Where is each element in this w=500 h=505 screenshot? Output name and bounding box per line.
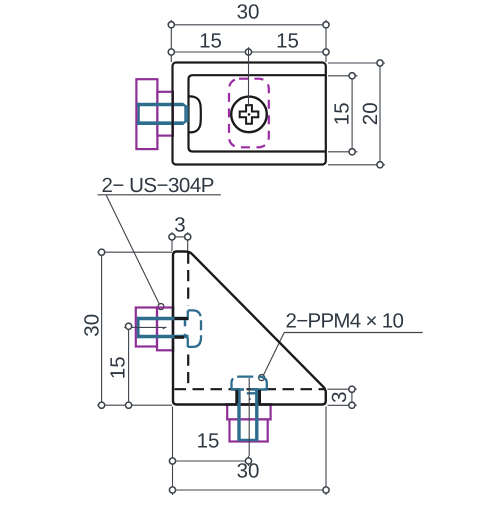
bottom screw shaft (blue) [238, 389, 258, 441]
leader line PPM4x10 [259, 333, 285, 381]
left screw center line [124, 327, 166, 329]
dim 15 left vertical [126, 323, 132, 408]
svg-text:20: 20 [359, 102, 382, 125]
label underline PPM4x10 [284, 332, 423, 334]
inner pocket outline (top view) [189, 75, 327, 151]
dashed clamp zone rounded rect (magenta) [229, 79, 269, 148]
bottom screw hole edges in wall (black) [237, 390, 260, 404]
dim 15 right vertical [349, 73, 355, 155]
dim 15 left text [199, 30, 222, 53]
label 2-PPM4x10 [286, 309, 404, 332]
svg-text:2−PPM4 × 10: 2−PPM4 × 10 [286, 309, 404, 332]
svg-text:30: 30 [237, 460, 260, 483]
bracket edge restroke over left knob [172, 306, 174, 352]
dim 3 top (side view) extension lines [172, 232, 188, 251]
dim 20 right vertical [377, 60, 383, 168]
svg-text:15: 15 [276, 30, 299, 53]
dim 15/15 top: dimension line [168, 49, 329, 55]
dim 3 right extension lines [328, 389, 357, 405]
bracket triangle outline (side view) [173, 252, 326, 405]
dim 30 top: dimension line [168, 22, 329, 28]
svg-text:30: 30 [81, 314, 104, 337]
boss bump on inner left wall (top view) [189, 96, 201, 132]
dim 15 right text (rotated) [331, 102, 354, 125]
bracket edge restroke over bottom knob [226, 403, 273, 405]
label underline US-304P [98, 194, 221, 196]
dim 15 bottom text [197, 430, 220, 453]
svg-text:3: 3 [328, 391, 351, 402]
svg-text:15: 15 [107, 356, 130, 379]
dim 15 left text (rotated) [107, 356, 130, 379]
phillips cross recess [240, 105, 259, 124]
thumb screw shaft (top view, blue) [137, 103, 188, 125]
bottom screw knob lower (purple) [230, 419, 268, 441]
dim 20 right text (rotated) [359, 102, 382, 125]
left thumb screw wing (side view, purple) [136, 308, 157, 347]
dim 3 right text (rotated) [328, 391, 351, 402]
right side extension lines (top view) [328, 63, 385, 165]
thumb screw hub (top view, purple) [157, 92, 173, 136]
bottom screw head dome (blue) [231, 377, 267, 394]
left thumb screw hub (side view, purple) [157, 308, 173, 351]
dim 30 top: text [237, 1, 260, 24]
svg-text:2− US−304P: 2− US−304P [102, 174, 214, 197]
left screw shaft (side view, blue) [137, 317, 189, 338]
outer body outline (top view) [173, 63, 326, 165]
dim 30 left vertical [99, 249, 105, 408]
dim 30 bottom dimension line [169, 487, 329, 493]
dim 15 bottom dimension line [169, 458, 251, 464]
dim 30 left text (rotated) [81, 314, 104, 337]
center extension to screw [248, 47, 250, 106]
leader line US-304P [106, 195, 164, 310]
bottom extension lines (side view) [173, 407, 327, 496]
svg-text:3: 3 [174, 214, 185, 237]
bottom screw knob upper (purple) [227, 405, 270, 420]
dim 15 right text [276, 30, 299, 53]
svg-text:15: 15 [199, 30, 222, 53]
svg-text:15: 15 [331, 102, 354, 125]
left screw head (side view, blue) [188, 310, 201, 347]
svg-text:30: 30 [237, 1, 260, 24]
dim 30 bottom text [237, 460, 260, 483]
left screw hole edges in wall (black) [175, 319, 189, 338]
screw head circle (top view) [231, 97, 267, 133]
bottom screw center line [249, 378, 251, 456]
hidden edge vertical dashed [187, 253, 189, 389]
hidden edge horizontal dashed [175, 388, 326, 390]
dim 3 top text [174, 214, 185, 237]
left extension lines (side view) [97, 252, 172, 405]
label 2- US-304P [102, 174, 214, 197]
thumb screw flange (top view, purple) [136, 79, 157, 149]
svg-text:15: 15 [197, 430, 220, 453]
body left edge restroke over neck (top view) [172, 91, 174, 138]
dim 30 top: extension lines [171, 20, 326, 62]
dim 3 top dimension line [169, 234, 191, 240]
dim 3 right dimension line [349, 386, 355, 408]
